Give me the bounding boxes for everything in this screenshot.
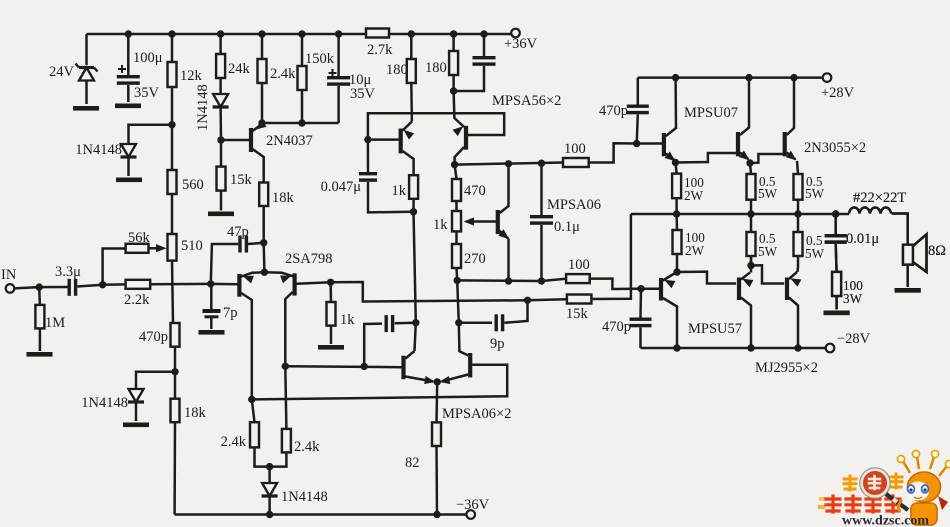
resistor 100 3W xyxy=(832,272,863,310)
capacitor miller (to 1k bottom column) xyxy=(364,315,416,366)
svg-text:180: 180 xyxy=(425,60,447,76)
svg-text:2.7k: 2.7k xyxy=(367,42,393,58)
node rail-180b xyxy=(450,30,457,37)
resistor 2.2k xyxy=(103,280,211,308)
svg-text:3.3μ: 3.3μ xyxy=(55,264,81,280)
wire Q4->Q5 base xyxy=(677,272,736,284)
capacitor 0.1u xyxy=(530,163,580,281)
resistor 180 (right) xyxy=(425,34,458,91)
node after 3.3u xyxy=(99,281,106,288)
resistor 0.5 5W (lower 2) xyxy=(794,214,825,267)
transistor MPSA06 bias (Vbe multiplier) xyxy=(496,164,601,281)
resistor 0.5 5W (upper 1) xyxy=(747,163,778,214)
node diode bottom rail xyxy=(266,511,273,518)
svg-text:www.dzsc.com: www.dzsc.com xyxy=(842,514,929,527)
svg-text:9p: 9p xyxy=(490,336,505,352)
svg-text:82: 82 xyxy=(405,455,420,471)
svg-text:5W: 5W xyxy=(805,246,825,261)
resistor 0.5 5W (upper 2) xyxy=(794,161,825,214)
resistor 180 (left) xyxy=(386,34,416,122)
diode 1N4148 #3 xyxy=(81,389,144,421)
svg-text:2.2k: 2.2k xyxy=(124,292,150,308)
ground (1N4148 #1) xyxy=(116,178,142,183)
wire 510 down to 470p xyxy=(172,261,173,323)
svg-text:−28V: −28V xyxy=(837,331,871,347)
node 150k bottom xyxy=(298,119,305,126)
wire 100 to MPSU57 base xyxy=(590,279,641,289)
terminal +28V xyxy=(821,73,855,101)
capacitor 0.01u xyxy=(825,214,880,272)
svg-text:2SA798: 2SA798 xyxy=(285,251,333,267)
svg-text:5W: 5W xyxy=(805,186,825,201)
wire node A xyxy=(455,163,563,165)
node 270 bottom xyxy=(454,277,461,284)
node Q6 collector rail xyxy=(794,344,801,351)
ground (100u) xyxy=(115,104,141,109)
svg-text:2.4k: 2.4k xyxy=(221,434,247,450)
capacitor 470p (upper) xyxy=(599,78,649,144)
resistor 560 xyxy=(168,125,204,194)
diode 1N4148 #1 xyxy=(75,142,136,176)
node 12k bottom junction xyxy=(168,121,175,128)
node 470p bottom xyxy=(171,347,178,376)
node Q1 collector rail xyxy=(672,74,679,81)
transistor 2SA798 right PNP xyxy=(264,272,330,366)
node 18k-47p-emitters xyxy=(260,239,267,246)
transistor MJ2955 driver PNP xyxy=(737,273,754,349)
svg-text:180: 180 xyxy=(386,62,408,78)
svg-text:7p: 7p xyxy=(223,305,238,321)
capacitor 9p xyxy=(459,300,528,352)
node Q4 collector rail xyxy=(673,344,680,351)
svg-text:56k: 56k xyxy=(128,230,151,246)
terminal -36V xyxy=(456,497,490,519)
node Q4 emitter xyxy=(673,268,680,275)
node common emitters 2SA798 xyxy=(261,243,268,276)
svg-text:2W: 2W xyxy=(684,188,704,203)
svg-text:MPSU57: MPSU57 xyxy=(688,321,742,337)
resistor 24k xyxy=(216,34,250,94)
node miller cap right xyxy=(412,319,419,326)
svg-text:35V: 35V xyxy=(350,86,376,102)
resistor 1k (left load) xyxy=(392,175,419,212)
speaker 8ohm xyxy=(903,234,946,287)
node MPSU07 base xyxy=(633,140,640,147)
potentiometer 1k bias xyxy=(433,211,461,244)
svg-text:100: 100 xyxy=(564,141,586,157)
inductor #22x22T xyxy=(849,190,906,214)
svg-text:2N3055×2: 2N3055×2 xyxy=(804,140,866,156)
svg-text:MPSA56×2: MPSA56×2 xyxy=(492,93,561,109)
diode 1N4148 #4 xyxy=(262,467,328,515)
wire bias junction y123 xyxy=(262,122,339,125)
transistor MPSA56 left PNP xyxy=(368,122,414,176)
node rail 0.5 lower1 xyxy=(747,210,754,217)
svg-text:MPSA06: MPSA06 xyxy=(547,197,601,213)
svg-text:12k: 12k xyxy=(180,68,203,84)
svg-text:35V: 35V xyxy=(134,85,160,101)
node Q5 emitter xyxy=(747,262,754,269)
zener diode 24V xyxy=(49,34,97,104)
transistor 2N3055 NPN xyxy=(783,78,867,161)
svg-text:470p: 470p xyxy=(139,329,168,345)
resistor 100 2W (lower) xyxy=(673,214,706,272)
wire inductor to speaker xyxy=(892,214,908,245)
wire Q6 emitter xyxy=(796,267,799,272)
capacitor 0.047u xyxy=(321,140,411,213)
node right base / 1k xyxy=(327,279,334,286)
resistor 18k (below 2N4037) xyxy=(259,183,294,243)
ground (100 3W) xyxy=(824,311,850,316)
wire up to 56k xyxy=(103,249,126,285)
node 1k bottom xyxy=(410,208,417,215)
transistor MPSA06 left NPN xyxy=(401,351,511,422)
capacitor 100u 35V electrolytic xyxy=(117,34,163,102)
node Q1 emitter xyxy=(672,159,679,166)
wire MPSA56 base tie xyxy=(368,113,504,139)
inductor #22x22T xyxy=(849,190,906,214)
svg-text:1k: 1k xyxy=(433,217,448,233)
terminal -28V xyxy=(826,331,871,352)
wire right base to feedback xyxy=(331,282,528,302)
transistor MPSA06 right NPN xyxy=(252,280,507,399)
node 2.4k/2N4037 emitter xyxy=(258,119,265,126)
ground (1M) xyxy=(27,352,53,357)
node MPSA56 base node xyxy=(364,136,371,143)
diode 1N4148 #2 xyxy=(195,84,229,140)
capacitor supply bypass xyxy=(454,34,496,91)
node input-1M xyxy=(36,283,43,290)
svg-text:2.4k: 2.4k xyxy=(270,66,296,82)
wire to 1N4148 #3 xyxy=(136,372,175,389)
svg-text:MJ2955×2: MJ2955×2 xyxy=(755,360,818,376)
resistor 2.4k (bottom right) xyxy=(270,366,321,466)
wire node B xyxy=(457,279,566,281)
capacitor 470p (lower) xyxy=(602,289,652,348)
capacitor 3.3u xyxy=(39,264,102,296)
node 180b-cap xyxy=(450,87,457,94)
label MPSA56x2 xyxy=(492,93,561,109)
transistor 2SA798 left PNP xyxy=(211,272,265,399)
node rail-cap36 xyxy=(480,30,487,37)
resistor 18k (left) xyxy=(171,372,207,515)
node Q2 emitter xyxy=(746,159,753,166)
svg-text:2N4037: 2N4037 xyxy=(266,133,313,149)
svg-text:100: 100 xyxy=(568,257,590,273)
wire -28V rail xyxy=(641,347,826,350)
node rail 100-2W lower xyxy=(673,210,680,217)
resistor 82 xyxy=(405,382,441,515)
node A 0.1u top xyxy=(538,160,545,167)
wire to diode 1N4148 #1 xyxy=(129,125,173,144)
resistor 270 xyxy=(452,244,486,280)
svg-text:8Ω: 8Ω xyxy=(928,243,946,259)
wire inductor to speaker xyxy=(892,214,908,245)
node 82 bottom rail xyxy=(433,511,440,518)
watermark url text xyxy=(842,514,929,527)
capacitor 10u 35V electrolytic xyxy=(327,34,375,123)
node MPSU57 base xyxy=(637,285,644,292)
resistor 470 xyxy=(452,165,486,211)
transistor MPSA56 right PNP xyxy=(453,91,469,165)
svg-text:+36V: +36V xyxy=(504,36,538,52)
resistor-style 470p xyxy=(139,323,180,347)
svg-text:100μ: 100μ xyxy=(133,50,163,66)
node rail-12k xyxy=(168,30,175,37)
node rail-150k xyxy=(298,30,305,37)
svg-text:+28V: +28V xyxy=(821,85,855,101)
wire Q2->Q3 base xyxy=(750,154,783,163)
resistor 100 (upper driver feed) xyxy=(563,141,589,167)
svg-text:470p: 470p xyxy=(599,103,628,119)
ground (15k) xyxy=(208,212,234,217)
node output-0.01u xyxy=(832,210,839,217)
svg-text:1k: 1k xyxy=(392,183,407,199)
capacitor 7p (to ground) xyxy=(203,284,238,329)
wire left collector to MPSA06L base xyxy=(285,365,402,368)
capacitor 0.01u xyxy=(825,214,880,272)
resistor 150k xyxy=(298,34,335,123)
transistor MPSU07/2N3055 driver2 NPN xyxy=(736,78,750,161)
svg-text:24k: 24k xyxy=(228,61,251,77)
node 2SA798L collector xyxy=(248,396,255,403)
node rail 0.5 lower2 xyxy=(794,210,801,217)
node A vbe collector xyxy=(505,160,512,167)
wire +28V rail xyxy=(638,76,823,79)
resistor 100 2W (upper) xyxy=(672,163,704,215)
svg-text:#22×22T: #22×22T xyxy=(853,190,906,206)
transistor MJ2955 PNP xyxy=(755,272,818,376)
transistor 2N4037 PNP xyxy=(249,120,313,182)
wire to MPSU57 base xyxy=(641,287,659,290)
svg-text:5W: 5W xyxy=(758,186,778,201)
svg-text:0.1μ: 0.1μ xyxy=(554,219,580,235)
resistor 12k xyxy=(168,34,203,125)
svg-text:1k: 1k xyxy=(340,312,355,328)
terminal +36V xyxy=(504,29,538,52)
svg-text:470: 470 xyxy=(464,183,486,199)
resistor 56k xyxy=(126,230,151,253)
node output-0.01u xyxy=(832,210,839,217)
node rail-100u xyxy=(125,30,132,37)
node rail-2.4k xyxy=(258,30,265,37)
svg-text:MPSU07: MPSU07 xyxy=(684,105,738,121)
wire 1k-bottom down to MPSA06L collector xyxy=(414,212,416,351)
resistor 100 3W xyxy=(832,272,863,310)
resistor 2.4k (bottom left) xyxy=(221,399,270,466)
node 1N4148#2 / 15k / base xyxy=(217,136,224,143)
wire to MPSU07 base xyxy=(637,142,662,145)
ground (speaker) xyxy=(895,288,921,293)
svg-text:470p: 470p xyxy=(602,319,631,335)
ground (100 3W) xyxy=(824,311,850,316)
wire 56k wiper arrow xyxy=(149,244,167,252)
svg-text:47p: 47p xyxy=(227,224,249,240)
svg-text:24V: 24V xyxy=(49,64,75,80)
node 2SA798R collector xyxy=(282,363,289,370)
svg-text:3W: 3W xyxy=(843,291,863,306)
potentiometer 510 xyxy=(168,194,203,261)
svg-text:−36V: −36V xyxy=(456,497,490,513)
svg-text:0.047μ: 0.047μ xyxy=(321,179,362,195)
resistor 100 (lower driver feed) xyxy=(566,257,590,283)
capacitor 47p xyxy=(211,224,264,284)
node rail-10u xyxy=(335,30,342,37)
terminal IN xyxy=(1,267,17,293)
resistor 15k (to ground) xyxy=(217,140,253,211)
resistor 2.7k (in top rail) xyxy=(366,29,393,59)
watermark logo xyxy=(818,450,950,525)
label 2SA798 xyxy=(285,251,333,267)
transistor MPSU57 PNP xyxy=(659,273,742,349)
svg-text:0.01μ: 0.01μ xyxy=(846,231,879,247)
wire Q1->Q2 base xyxy=(676,153,737,163)
node base-47p-7p xyxy=(207,280,214,287)
ground (zener) xyxy=(73,106,99,111)
node Q2 collector rail xyxy=(745,74,752,81)
svg-text:18k: 18k xyxy=(184,405,207,421)
node 9p top xyxy=(524,297,531,304)
resistor 1k (right base to gnd) xyxy=(327,282,356,344)
wiper arrow from bias transistor xyxy=(464,217,498,225)
wire bottom -36V rail xyxy=(175,513,466,516)
svg-text:1M: 1M xyxy=(45,315,65,331)
node 9p left xyxy=(455,319,462,326)
wire Q5 emitter xyxy=(750,256,753,273)
wire 100 to MPSU07 base xyxy=(589,143,637,162)
node miller cap tap xyxy=(361,363,368,370)
resistor 0.5 5W (lower 1) xyxy=(747,214,778,266)
svg-text:510: 510 xyxy=(181,238,203,254)
svg-text:MPSA06×2: MPSA06×2 xyxy=(442,406,511,422)
ground (speaker) xyxy=(895,288,921,293)
node 2.4k join xyxy=(266,463,273,470)
resistor 2.4k (top) xyxy=(258,34,297,123)
svg-text:560: 560 xyxy=(182,177,204,193)
node B vbe emitter xyxy=(505,277,512,284)
ground (1N4148 #3) xyxy=(123,423,149,428)
svg-text:1N4148: 1N4148 xyxy=(81,395,128,411)
svg-text:5W: 5W xyxy=(758,244,778,259)
svg-text:1N4148: 1N4148 xyxy=(195,84,211,131)
svg-text:2.4k: 2.4k xyxy=(294,439,320,455)
svg-text:18k: 18k xyxy=(272,190,295,206)
svg-text:2W: 2W xyxy=(685,243,705,258)
wire input xyxy=(14,287,39,288)
node common emitters MPSA06 xyxy=(434,378,441,385)
svg-text:1N4148: 1N4148 xyxy=(281,489,328,505)
resistor 15k feedback xyxy=(528,214,631,322)
transistor MPSU07 NPN xyxy=(662,78,738,162)
resistor 1M xyxy=(35,287,65,351)
node rail-24k xyxy=(217,30,224,37)
node MPSA56R collector xyxy=(451,161,458,168)
node Q5 collector rail xyxy=(747,344,754,351)
node rail-180a xyxy=(408,30,415,37)
svg-text:1N4148: 1N4148 xyxy=(75,142,122,158)
speaker 8ohm xyxy=(903,234,946,287)
svg-text:150k: 150k xyxy=(305,51,335,67)
wire output rail to speaker xyxy=(631,213,849,216)
svg-text:IN: IN xyxy=(1,267,17,283)
node Q3 collector rail xyxy=(790,74,797,81)
wire +36V top supply rail xyxy=(87,33,512,36)
wire 2N4037 base xyxy=(221,139,249,142)
ground (7p) xyxy=(199,330,225,335)
svg-text:15k: 15k xyxy=(566,306,589,322)
node B 0.1u bottom xyxy=(538,277,545,284)
svg-text:15k: 15k xyxy=(230,172,253,188)
svg-text:270: 270 xyxy=(464,251,486,267)
wire Q5->Q6 base xyxy=(751,265,784,283)
ground (1k) xyxy=(318,345,344,350)
